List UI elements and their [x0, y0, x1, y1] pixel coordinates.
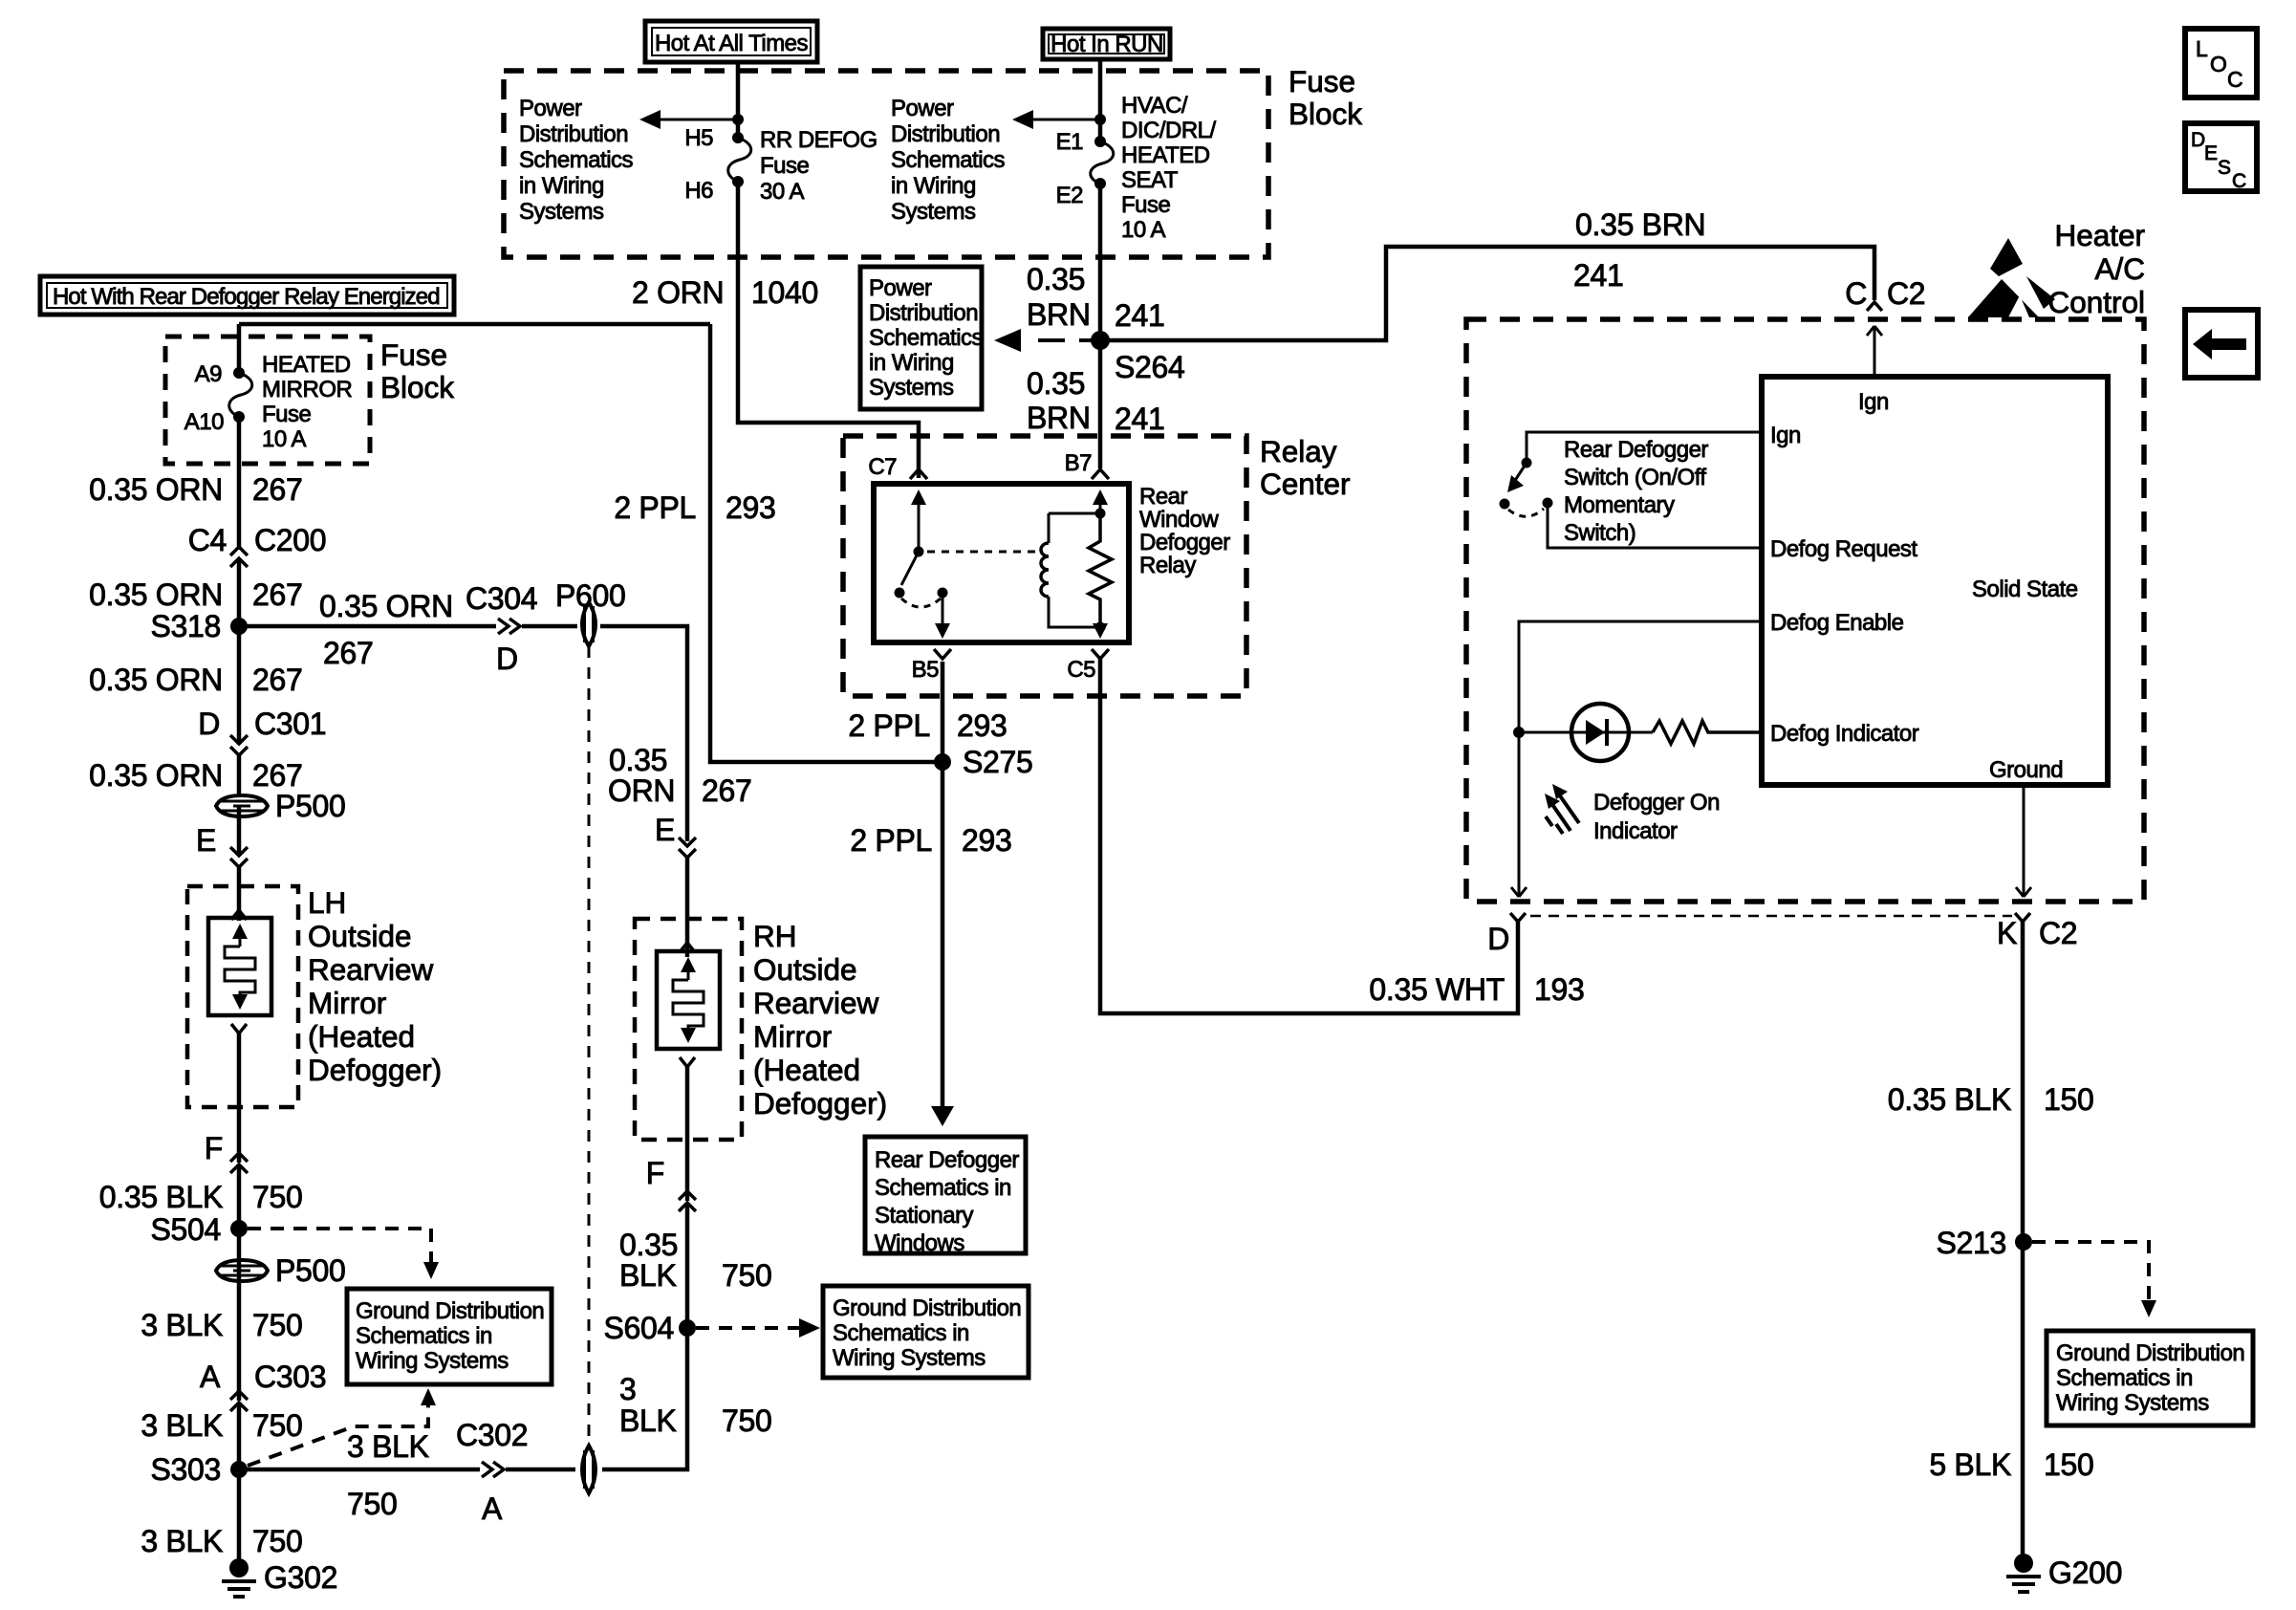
- svg-text:in Wiring: in Wiring: [519, 173, 604, 199]
- dashed grommet association line P600 down to C302 grommet: [588, 646, 591, 1446]
- svg-text:C4: C4: [188, 523, 227, 557]
- wire from Hot In RUN: [1098, 59, 1103, 141]
- svg-text:in Wiring: in Wiring: [891, 173, 976, 199]
- svg-text:Systems: Systems: [519, 199, 604, 225]
- splice S275: [934, 753, 951, 771]
- wire arrow to power distribution (right): [1030, 119, 1100, 121]
- connector symbol E (RH mirror harness): [679, 838, 696, 858]
- svg-text:2 ORN: 2 ORN: [632, 275, 724, 310]
- wire LH mirror down to F connector: [237, 1033, 242, 1163]
- svg-text:2 PPL: 2 PPL: [850, 823, 932, 858]
- wire B5 down through S275 to stationary windows note: [941, 662, 945, 1109]
- svg-text:ORN: ORN: [608, 773, 675, 808]
- svg-text:3 BLK: 3 BLK: [141, 1308, 223, 1342]
- svg-text:0.35 ORN: 0.35 ORN: [89, 663, 223, 697]
- svg-text:Switch): Switch): [1564, 520, 1635, 546]
- dashed reference from S303 to ground distribution note: [248, 1405, 428, 1466]
- svg-text:Systems: Systems: [891, 199, 976, 225]
- grommet P500: [216, 789, 346, 823]
- splice S213: [2015, 1233, 2032, 1251]
- svg-text:RH: RH: [753, 919, 797, 953]
- svg-text:Schematics: Schematics: [891, 147, 1006, 173]
- svg-text:Fuse: Fuse: [1121, 192, 1171, 218]
- wire C303 to S303: [237, 1404, 242, 1469]
- RH mirror heater element: [657, 951, 720, 1049]
- svg-text:0.35: 0.35: [619, 1228, 678, 1262]
- svg-text:267: 267: [702, 773, 752, 808]
- svg-text:Window: Window: [1139, 507, 1220, 533]
- wire from E2 down to S264: [1098, 184, 1103, 468]
- svg-text:B5: B5: [912, 657, 940, 683]
- svg-text:Hot In RUN: Hot In RUN: [1051, 32, 1163, 57]
- label HVAC/DIC/DRL/HEATED SEAT Fuse 10 A: [1121, 93, 1217, 243]
- splice S318: [230, 618, 248, 635]
- svg-text:Block: Block: [380, 370, 454, 404]
- svg-text:Mirror: Mirror: [753, 1019, 832, 1054]
- svg-text:Ground Distribution: Ground Distribution: [2056, 1340, 2244, 1366]
- relay box: [874, 484, 1129, 642]
- connector symbol E (into LH mirror harness): [230, 847, 248, 867]
- svg-text:Rear Defogger: Rear Defogger: [1564, 437, 1708, 463]
- relay coil: [1041, 513, 1100, 627]
- svg-text:S275: S275: [963, 745, 1033, 779]
- svg-text:267: 267: [252, 472, 303, 507]
- fuse block dashed box (heated mirror): [165, 337, 370, 464]
- svg-text:193: 193: [1534, 972, 1585, 1007]
- note box Ground Distribution Schematics in Wiring Systems (right): [2047, 1331, 2253, 1425]
- svg-text:0.35 ORN: 0.35 ORN: [319, 589, 453, 623]
- svg-text:LH: LH: [308, 885, 346, 920]
- svg-text:Schematics in: Schematics in: [2056, 1365, 2193, 1391]
- connector symbol D (C2): [1510, 913, 1526, 922]
- note box Ground Distribution Schematics in Wiring Systems (left): [347, 1289, 552, 1384]
- connector mark at RH mirror element bottom: [680, 1057, 695, 1067]
- svg-text:H6: H6: [684, 178, 713, 204]
- svg-text:E: E: [655, 813, 675, 847]
- relay center dashed box: [843, 436, 1246, 696]
- svg-text:Rear Defogger: Rear Defogger: [875, 1147, 1019, 1173]
- dashed reference from S504 to ground distribution note: [248, 1229, 431, 1262]
- svg-text:293: 293: [726, 490, 776, 525]
- label LH Outside Rearview Mirror (Heated Defogger): [308, 885, 442, 1087]
- wire 2 PPL drop from hot-with-relay over to S275: [710, 324, 942, 762]
- svg-text:Center: Center: [1260, 467, 1351, 501]
- connector mark at RH mirror box top: [680, 943, 695, 952]
- connector symbol C302 (male chevrons): [482, 1462, 504, 1477]
- svg-text:Distribution: Distribution: [869, 300, 978, 326]
- svg-text:BLK: BLK: [619, 1258, 677, 1293]
- junction node at H5 feed: [732, 114, 744, 125]
- svg-text:Wiring Systems: Wiring Systems: [356, 1348, 509, 1374]
- svg-text:5 BLK: 5 BLK: [1929, 1447, 2011, 1482]
- wire ground pin down to K connector: [2016, 785, 2031, 897]
- wire C200 to S318: [237, 560, 242, 626]
- svg-text:Hot With Rear Defogger Relay E: Hot With Rear Defogger Relay Energized: [53, 284, 440, 310]
- wire Defog Enable loop: [1519, 621, 1762, 732]
- relay mechanical dashed link: [927, 551, 1040, 554]
- wire from Hot At All Times into fuse block: [736, 62, 741, 136]
- svg-text:30 A: 30 A: [760, 179, 805, 205]
- heater A/C control dashed box: [1466, 319, 2144, 902]
- svg-text:Defogger): Defogger): [308, 1053, 442, 1087]
- svg-text:3: 3: [619, 1372, 637, 1406]
- svg-text:C7: C7: [868, 454, 897, 480]
- svg-text:Wiring Systems: Wiring Systems: [833, 1345, 986, 1371]
- svg-text:Defogger): Defogger): [753, 1086, 887, 1120]
- svg-text:267: 267: [252, 663, 303, 697]
- wire S604 down and across to S303 via C302: [239, 1328, 687, 1469]
- svg-text:Power: Power: [891, 96, 954, 121]
- svg-text:Ground Distribution: Ground Distribution: [356, 1298, 544, 1324]
- note box Power Distribution Schematics in Wiring Systems (solid): [860, 267, 984, 409]
- svg-text:S318: S318: [150, 609, 221, 643]
- svg-text:Ign: Ign: [1858, 389, 1889, 415]
- svg-text:G302: G302: [264, 1560, 337, 1595]
- svg-text:BRN: BRN: [1027, 401, 1091, 435]
- svg-text:Schematics: Schematics: [519, 147, 634, 173]
- splice S303: [230, 1461, 248, 1478]
- svg-text:Fuse: Fuse: [380, 337, 447, 372]
- svg-text:Power: Power: [869, 275, 932, 301]
- svg-text:0.35 ORN: 0.35 ORN: [89, 472, 223, 507]
- svg-text:Switch (On/Off: Switch (On/Off: [1564, 465, 1706, 490]
- junction at defog indicator branch: [1513, 727, 1525, 738]
- svg-text:Power: Power: [519, 96, 582, 121]
- grommet P600: [555, 578, 626, 646]
- svg-text:241: 241: [1115, 402, 1165, 436]
- svg-text:S213: S213: [1936, 1226, 2006, 1260]
- wire S318 down to C301: [237, 626, 242, 742]
- splice S604: [679, 1319, 696, 1337]
- ground G200: [2006, 1554, 2122, 1592]
- svg-text:0.35 BLK: 0.35 BLK: [1888, 1082, 2011, 1117]
- relay B7 terminal arrow: [1099, 503, 1102, 513]
- wire P500 to LH mirror: [237, 806, 242, 854]
- rear defogger switch: [1500, 458, 1763, 549]
- svg-text:750: 750: [252, 1308, 303, 1342]
- svg-text:A9: A9: [195, 361, 223, 387]
- svg-text:C304: C304: [466, 581, 537, 616]
- svg-text:C: C: [2227, 67, 2243, 92]
- LH mirror dashed box: [187, 886, 298, 1107]
- svg-text:C302: C302: [456, 1418, 528, 1452]
- svg-text:150: 150: [2044, 1447, 2094, 1482]
- svg-text:S303: S303: [150, 1452, 221, 1487]
- ESD sensitive symbol: [1968, 238, 2055, 317]
- svg-text:C5: C5: [1067, 657, 1095, 683]
- svg-text:Defog Request: Defog Request: [1770, 536, 1917, 562]
- svg-text:C: C: [1845, 276, 1867, 311]
- svg-text:Distribution: Distribution: [519, 121, 628, 147]
- svg-text:HEATED: HEATED: [1121, 142, 1210, 168]
- svg-text:D: D: [1487, 922, 1509, 956]
- svg-text:HEATED: HEATED: [262, 352, 351, 378]
- svg-text:750: 750: [252, 1408, 303, 1443]
- svg-text:267: 267: [252, 577, 303, 612]
- svg-text:DIC/DRL/: DIC/DRL/: [1121, 118, 1217, 143]
- svg-text:Relay: Relay: [1260, 434, 1337, 468]
- svg-text:C: C: [2232, 170, 2246, 192]
- svg-text:Block: Block: [1289, 97, 1362, 131]
- svg-text:267: 267: [252, 758, 303, 793]
- svg-text:Stationary: Stationary: [875, 1203, 974, 1229]
- svg-text:241: 241: [1115, 298, 1165, 333]
- svg-text:Distribution: Distribution: [891, 121, 1000, 147]
- connector mark at LH mirror element bottom: [231, 1024, 247, 1033]
- dashed reference from S604 to ground distribution note: [696, 1326, 799, 1330]
- wire RH mirror down to F connector: [685, 1067, 690, 1201]
- wire P500 to C303: [237, 1271, 242, 1401]
- label HEATED MIRROR Fuse 10 A: [262, 352, 352, 452]
- svg-text:MIRROR: MIRROR: [262, 377, 352, 402]
- wire into RH mirror box: [685, 856, 690, 957]
- svg-text:C303: C303: [254, 1360, 326, 1394]
- wire into LH mirror box: [237, 865, 242, 921]
- svg-text:0.35: 0.35: [1027, 262, 1085, 296]
- svg-text:Hot At All Times: Hot At All Times: [655, 31, 809, 56]
- wire K down to G200: [2021, 922, 2025, 1561]
- svg-text:P500: P500: [275, 1253, 346, 1288]
- svg-text:Fuse: Fuse: [262, 402, 312, 427]
- svg-text:Schematics in: Schematics in: [833, 1320, 969, 1346]
- svg-text:Ign: Ign: [1770, 423, 1801, 448]
- junction node at E1 feed: [1094, 114, 1106, 125]
- svg-text:F: F: [205, 1131, 223, 1165]
- svg-text:E1: E1: [1056, 129, 1084, 155]
- wire C301 to P500: [237, 753, 242, 795]
- svg-text:Ground: Ground: [1989, 757, 2063, 783]
- svg-text:0.35 ORN: 0.35 ORN: [89, 577, 223, 612]
- svg-text:Defog Indicator: Defog Indicator: [1770, 721, 1919, 747]
- svg-text:D: D: [496, 642, 518, 676]
- light rays symbol: [1545, 784, 1579, 834]
- svg-text:C2: C2: [1887, 276, 1925, 311]
- svg-text:Fuse: Fuse: [760, 153, 810, 179]
- svg-text:RR DEFOG: RR DEFOG: [760, 127, 877, 153]
- svg-text:Outside: Outside: [308, 919, 412, 953]
- svg-text:A/C: A/C: [2094, 251, 2145, 286]
- DESC corner box: [2185, 123, 2257, 192]
- C2 connector face dashed line: [1530, 915, 2012, 918]
- svg-text:Defogger On: Defogger On: [1593, 790, 1720, 816]
- svg-text:Rearview: Rearview: [308, 952, 434, 987]
- connector symbol C2 top: [1867, 302, 1882, 311]
- label box Hot In RUN: [1043, 29, 1170, 59]
- ground G302: [222, 1558, 337, 1597]
- svg-text:P600: P600: [555, 578, 626, 613]
- label box Hot With Rear Defogger Relay Energized: [40, 276, 454, 315]
- svg-text:HVAC/: HVAC/: [1121, 93, 1188, 119]
- svg-text:750: 750: [347, 1487, 398, 1521]
- svg-text:750: 750: [252, 1180, 303, 1214]
- svg-text:0.35 WHT: 0.35 WHT: [1369, 972, 1505, 1007]
- svg-text:BRN: BRN: [1027, 297, 1091, 332]
- fuse RR DEFOG 30A (H5-H6): [728, 132, 751, 187]
- wire arrow to power distribution (left): [658, 119, 738, 121]
- svg-text:(Heated: (Heated: [753, 1053, 860, 1087]
- svg-text:A10: A10: [184, 409, 224, 435]
- svg-text:C200: C200: [254, 523, 326, 557]
- label Rear Window Defogger Relay: [1139, 484, 1230, 578]
- note box Ground Distribution Schematics in Wiring Systems (middle): [823, 1286, 1029, 1378]
- wire hot-with-relay feed: down into A9, and right to 2 PPL drop: [239, 324, 710, 373]
- LOC corner box: [2185, 29, 2257, 98]
- svg-text:E: E: [196, 823, 216, 858]
- svg-text:Rearview: Rearview: [753, 986, 879, 1020]
- svg-text:0.35: 0.35: [609, 743, 667, 777]
- svg-text:Schematics in: Schematics in: [356, 1323, 492, 1349]
- svg-text:S264: S264: [1115, 350, 1185, 384]
- svg-text:BLK: BLK: [619, 1403, 677, 1438]
- svg-text:S: S: [2218, 157, 2231, 179]
- svg-text:C301: C301: [254, 707, 326, 741]
- svg-text:A: A: [482, 1491, 503, 1526]
- svg-text:Rear: Rear: [1139, 484, 1188, 510]
- svg-text:S604: S604: [603, 1311, 674, 1345]
- back arrow box: [2185, 310, 2258, 378]
- connector mark at LH mirror box top: [231, 910, 247, 920]
- wire S264 to heater A/C control C2: [1100, 247, 1874, 340]
- svg-text:750: 750: [722, 1403, 772, 1438]
- wire Ign pin to rear defogger switch: [1527, 432, 1762, 458]
- fuse HVAC/DIC/DRL/HEATED SEAT 10A (E1-E2): [1091, 136, 1114, 189]
- defogger on indicator LED: [1519, 704, 1653, 761]
- svg-text:Fuse: Fuse: [1289, 64, 1355, 98]
- svg-text:Schematics in: Schematics in: [875, 1175, 1011, 1201]
- note box Rear Defogger Schematics in Stationary Windows: [865, 1137, 1026, 1256]
- splice S504: [230, 1220, 248, 1237]
- svg-text:L: L: [2196, 36, 2208, 61]
- label RR DEFOG Fuse 30 A: [760, 127, 877, 205]
- svg-text:Defogger: Defogger: [1139, 530, 1230, 555]
- svg-text:S504: S504: [150, 1212, 221, 1247]
- svg-text:267: 267: [323, 636, 374, 670]
- fuse HEATED MIRROR 10A (A9-A10): [229, 367, 252, 423]
- svg-text:F: F: [646, 1156, 664, 1190]
- svg-text:10 A: 10 A: [1121, 217, 1166, 243]
- svg-text:Mirror: Mirror: [308, 986, 386, 1020]
- svg-text:C2: C2: [2039, 916, 2077, 950]
- svg-text:0.35: 0.35: [1027, 366, 1085, 401]
- dashed reference from S213 to ground distribution note: [2032, 1242, 2149, 1300]
- relay C5 terminal arrow: [1093, 623, 1108, 639]
- svg-text:0.35 BRN: 0.35 BRN: [1575, 207, 1705, 242]
- svg-text:Schematics: Schematics: [869, 325, 984, 351]
- svg-text:750: 750: [252, 1524, 303, 1558]
- wire F to S504: [237, 1166, 242, 1271]
- relay switch arm: [895, 490, 951, 639]
- svg-text:E: E: [2204, 142, 2218, 164]
- connector symbol C303: [230, 1391, 248, 1411]
- arrow into solid state Ign: [1867, 326, 1882, 377]
- svg-text:B7: B7: [1065, 450, 1093, 476]
- svg-text:Indicator: Indicator: [1593, 818, 1678, 844]
- wire 2 ORN 1040 from H6 down and over to C7: [738, 182, 919, 478]
- svg-text:3 BLK: 3 BLK: [141, 1408, 223, 1443]
- text Power Distribution Schematics (right): [891, 96, 1006, 225]
- svg-text:750: 750: [722, 1258, 772, 1293]
- relay coil suppression resistor: [1089, 509, 1112, 633]
- svg-text:1040: 1040: [751, 275, 818, 310]
- svg-text:E2: E2: [1056, 183, 1084, 208]
- connector symbol C200: [230, 547, 248, 567]
- svg-text:Heater: Heater: [2054, 218, 2145, 252]
- svg-text:(Heated: (Heated: [308, 1019, 415, 1054]
- svg-text:241: 241: [1573, 258, 1624, 293]
- connector symbol F: [230, 1153, 248, 1173]
- connector symbol C304 (male chevrons): [498, 619, 520, 634]
- svg-text:Defog Enable: Defog Enable: [1770, 610, 1904, 636]
- svg-text:2 PPL: 2 PPL: [614, 490, 696, 525]
- svg-text:G200: G200: [2048, 1556, 2122, 1590]
- svg-text:Outside: Outside: [753, 952, 857, 987]
- dashed arrow S264 to power distribution note: [1038, 338, 1097, 342]
- svg-text:Ground Distribution: Ground Distribution: [833, 1295, 1021, 1321]
- label Heater A/C Control: [2047, 218, 2145, 319]
- svg-text:150: 150: [2044, 1082, 2094, 1117]
- wire A10 down to C200: [237, 417, 242, 550]
- svg-text:Relay: Relay: [1139, 553, 1196, 578]
- wire F to S604: [685, 1205, 690, 1328]
- fuse block dashed box: [504, 71, 1268, 257]
- splice S264: [1091, 331, 1110, 350]
- connector symbol K (C2): [2015, 913, 2030, 922]
- svg-text:293: 293: [962, 823, 1012, 858]
- wire S318 branch to C304/P600 and over to RH mirror drop: [239, 626, 687, 841]
- connector symbol F (RH): [679, 1191, 696, 1211]
- label box Hot At All Times: [645, 21, 817, 62]
- connector symbol C301: [230, 735, 248, 755]
- svg-text:0.35 ORN: 0.35 ORN: [89, 758, 223, 793]
- svg-text:P500: P500: [275, 789, 346, 823]
- label Rear Defogger Switch (On/Off Momentary Switch): [1564, 437, 1708, 546]
- label RH Outside Rearview Mirror (Heated Defogger): [753, 919, 887, 1120]
- svg-text:SEAT: SEAT: [1121, 167, 1179, 193]
- svg-text:Windows: Windows: [875, 1230, 964, 1256]
- svg-text:A: A: [200, 1360, 221, 1394]
- RH mirror dashed box: [635, 919, 742, 1140]
- svg-text:Wiring Systems: Wiring Systems: [2056, 1390, 2209, 1416]
- svg-text:in Wiring: in Wiring: [869, 350, 954, 376]
- svg-text:Systems: Systems: [869, 375, 954, 401]
- text Power Distribution Schematics (left): [519, 96, 634, 225]
- wire defog enable down to D connector: [1511, 732, 1527, 897]
- solid state module box: [1762, 377, 2108, 785]
- svg-text:293: 293: [957, 708, 1007, 743]
- wire S303 to G302: [237, 1469, 242, 1566]
- svg-text:0.35 BLK: 0.35 BLK: [99, 1180, 223, 1214]
- grommet P500 (lower): [216, 1253, 346, 1288]
- svg-text:3 BLK: 3 BLK: [347, 1429, 429, 1464]
- LH mirror heater element: [208, 918, 271, 1015]
- svg-text:H5: H5: [684, 125, 713, 151]
- svg-text:D: D: [198, 707, 220, 741]
- svg-text:Control: Control: [2047, 285, 2145, 319]
- wire 0.35 WHT from C5 to D: [1100, 659, 1518, 1013]
- svg-text:D: D: [2191, 129, 2205, 151]
- svg-text:Solid State: Solid State: [1972, 577, 2078, 602]
- indicator series resistor: [1653, 721, 1762, 744]
- grommet at C302 run: [582, 1446, 596, 1493]
- svg-text:2 PPL: 2 PPL: [848, 708, 930, 743]
- svg-text:O: O: [2210, 52, 2227, 76]
- svg-text:Momentary: Momentary: [1564, 492, 1675, 518]
- svg-text:10 A: 10 A: [262, 426, 307, 452]
- svg-text:3 BLK: 3 BLK: [141, 1524, 223, 1558]
- svg-text:K: K: [1997, 916, 2017, 950]
